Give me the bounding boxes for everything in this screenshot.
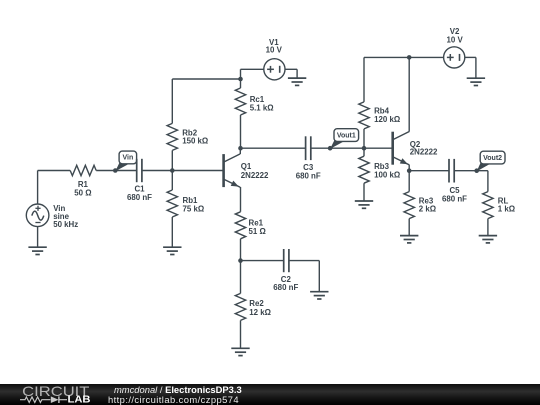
label Q2 2N2222	[410, 140, 438, 157]
ground under Rb3	[355, 201, 373, 208]
svg-text:680 nF: 680 nF	[273, 283, 298, 292]
label C5 680 nF	[442, 186, 467, 203]
wire top rail to Rc1/V1	[172, 78, 240, 80]
wire V1 corner down	[240, 69, 242, 79]
wire Rb2 bottom lead	[171, 150, 173, 170]
resistor RL	[483, 192, 493, 219]
label Re2 12 kOhm	[249, 299, 271, 317]
svg-text:Vin: Vin	[122, 155, 133, 162]
wire Q1 collector to C3	[241, 147, 306, 149]
net flag Vout2	[477, 151, 505, 171]
svg-text:100 kΩ: 100 kΩ	[374, 171, 400, 180]
wire emitter node to C5	[409, 170, 449, 172]
wire C2 to corner	[289, 260, 319, 262]
wire RL top lead	[487, 171, 489, 192]
svg-text:2N2222: 2N2222	[410, 148, 438, 157]
svg-text:1 kΩ: 1 kΩ	[498, 205, 515, 214]
svg-text:120 kΩ: 120 kΩ	[374, 115, 400, 124]
resistor R1	[70, 165, 96, 175]
svg-text:Q1: Q1	[241, 162, 252, 171]
CircuitLab logo	[20, 384, 115, 405]
label RL 1 kOhm	[498, 197, 515, 214]
ground under Vin	[28, 247, 46, 254]
credit text	[108, 384, 242, 405]
label Rc1 5.1 kOhm	[250, 95, 274, 113]
wire to V1 plus terminal	[241, 68, 264, 70]
wire Re3 to ground	[408, 219, 410, 236]
resistor Rb2	[167, 123, 177, 150]
label Rb4 120 kOhm	[374, 107, 400, 124]
wire Q2 emitter lead	[408, 165, 410, 171]
capacitor C1	[137, 159, 142, 182]
resistor Re1	[235, 212, 245, 239]
label Vin sine 50 kHz	[53, 204, 78, 229]
resistor Re3	[404, 192, 414, 219]
transistor Q2 (NPN 2N2222)	[393, 132, 410, 165]
transistor Q1 (NPN 2N2222)	[224, 154, 241, 187]
ground under Re2	[231, 348, 249, 355]
label Re3 2 kOhm	[419, 197, 436, 214]
node Q1 collector / C3	[238, 146, 243, 151]
ground under V2	[467, 78, 485, 85]
wire Rb3 to ground	[363, 183, 365, 201]
svg-text:51 Ω: 51 Ω	[249, 227, 266, 236]
svg-text:Re1: Re1	[249, 218, 264, 227]
logo schematic line: wire and resistor zigzag	[20, 397, 50, 403]
wire V2 minus terminal	[465, 56, 476, 58]
node Q2 collector rail	[407, 55, 412, 60]
net flag Vout1	[330, 129, 359, 149]
capacitor C5	[449, 159, 454, 183]
svg-text:5.1 kΩ: 5.1 kΩ	[250, 104, 274, 113]
wire V2 to ground	[475, 57, 477, 78]
ground under RL	[479, 236, 497, 243]
wire RL to ground	[487, 219, 489, 236]
svg-text:50 kHz: 50 kHz	[53, 220, 78, 229]
ground under Rb1	[163, 247, 181, 254]
label V1 10 V	[266, 38, 283, 54]
wire Vin top lead	[37, 171, 39, 205]
node Vin tap	[113, 168, 118, 173]
svg-text:680 nF: 680 nF	[296, 171, 321, 180]
svg-text:75 kΩ: 75 kΩ	[183, 205, 205, 214]
node Vout1 tap	[328, 146, 333, 151]
voltage source V2	[444, 47, 465, 68]
wire C1 to Q1 base	[142, 170, 224, 172]
ground under Re3	[400, 236, 418, 243]
node Vout2 tap	[474, 168, 479, 173]
svg-text:12 kΩ: 12 kΩ	[249, 308, 271, 317]
resistor Rc1	[235, 88, 245, 115]
svg-text:10 V: 10 V	[266, 45, 283, 54]
svg-text:2N2222: 2N2222	[241, 171, 269, 180]
wire V1 to ground	[296, 69, 298, 78]
wire top rail to V2	[364, 56, 444, 58]
ground under C2	[310, 292, 328, 299]
svg-text:LAB: LAB	[68, 395, 91, 405]
label Re1 51 Ohm	[249, 218, 266, 236]
svg-text:680 nF: 680 nF	[127, 193, 152, 202]
wire Re1 to node	[240, 239, 242, 261]
wire C2 down to ground	[318, 261, 320, 292]
svg-text:150 kΩ: 150 kΩ	[182, 136, 208, 145]
ground under V1	[288, 78, 306, 85]
svg-text:50 Ω: 50 Ω	[74, 188, 91, 197]
label Rb3 100 kOhm	[374, 162, 400, 179]
resistor Rb3	[359, 156, 369, 183]
wire Rb4 bottom lead	[363, 129, 365, 148]
node Q2 emitter network	[407, 168, 412, 173]
capacitor C3	[306, 136, 311, 160]
svg-text:10 V: 10 V	[446, 35, 463, 44]
wire Q1 emitter lead	[240, 187, 242, 212]
wire Rc1 top lead	[240, 79, 242, 88]
label V2 10 V	[446, 27, 463, 44]
svg-text:2 kΩ: 2 kΩ	[419, 205, 436, 214]
wire Re2 to ground	[240, 320, 242, 348]
label R1 50 Ohm	[74, 180, 91, 198]
svg-text:Vout1: Vout1	[337, 132, 356, 139]
node base divider junction	[170, 168, 175, 173]
wire Re3 top lead	[408, 171, 410, 192]
wire Re2 top lead	[240, 261, 242, 294]
label Q1 2N2222	[241, 162, 269, 180]
node Q1 emitter network	[238, 258, 243, 263]
wire Q1 collector lead	[239, 148, 241, 154]
resistor Re2	[235, 293, 245, 320]
footer bar	[0, 384, 540, 405]
svg-text:Rc1: Rc1	[250, 95, 265, 104]
voltage source Vin (sine)	[26, 204, 49, 227]
label C2 680 nF	[273, 275, 298, 292]
node V1/Rc1 junction	[238, 77, 243, 82]
wire Vin bottom lead	[37, 227, 39, 248]
wire node to C2	[241, 260, 284, 262]
net flag Vin	[115, 151, 136, 171]
svg-text:Re2: Re2	[249, 299, 264, 308]
wire source to R1	[38, 170, 71, 172]
wire R1 to C1	[96, 170, 137, 172]
svg-text:Vout2: Vout2	[483, 155, 502, 162]
wire Rb2 top lead	[171, 79, 173, 123]
wire C3 to Q2 base	[311, 147, 393, 149]
capacitor C2	[284, 249, 289, 272]
wire Rb3 top lead	[363, 148, 365, 156]
voltage source V1	[264, 59, 285, 80]
wire C5 to RL	[454, 170, 488, 172]
label C1 680 nF	[127, 185, 152, 202]
label Rb1 75 kOhm	[183, 196, 205, 214]
wire Rb4 top lead	[363, 57, 365, 102]
resistor Rb4	[359, 102, 369, 129]
wire Rb1 top lead	[171, 171, 173, 191]
logo schematic line: diode	[51, 397, 59, 404]
wire V1 minus terminal	[285, 68, 297, 70]
resistor Rb1	[167, 190, 177, 217]
label C3 680 nF	[296, 163, 321, 180]
wire Rc1 to Q1 collector	[240, 115, 242, 148]
label Rb2 150 kOhm	[182, 128, 208, 145]
wire Q2 collector lead	[408, 57, 410, 131]
svg-text:680 nF: 680 nF	[442, 194, 467, 203]
wire Rb1 to ground	[171, 217, 173, 247]
node Rb4/Rb3/base junction	[362, 146, 367, 151]
